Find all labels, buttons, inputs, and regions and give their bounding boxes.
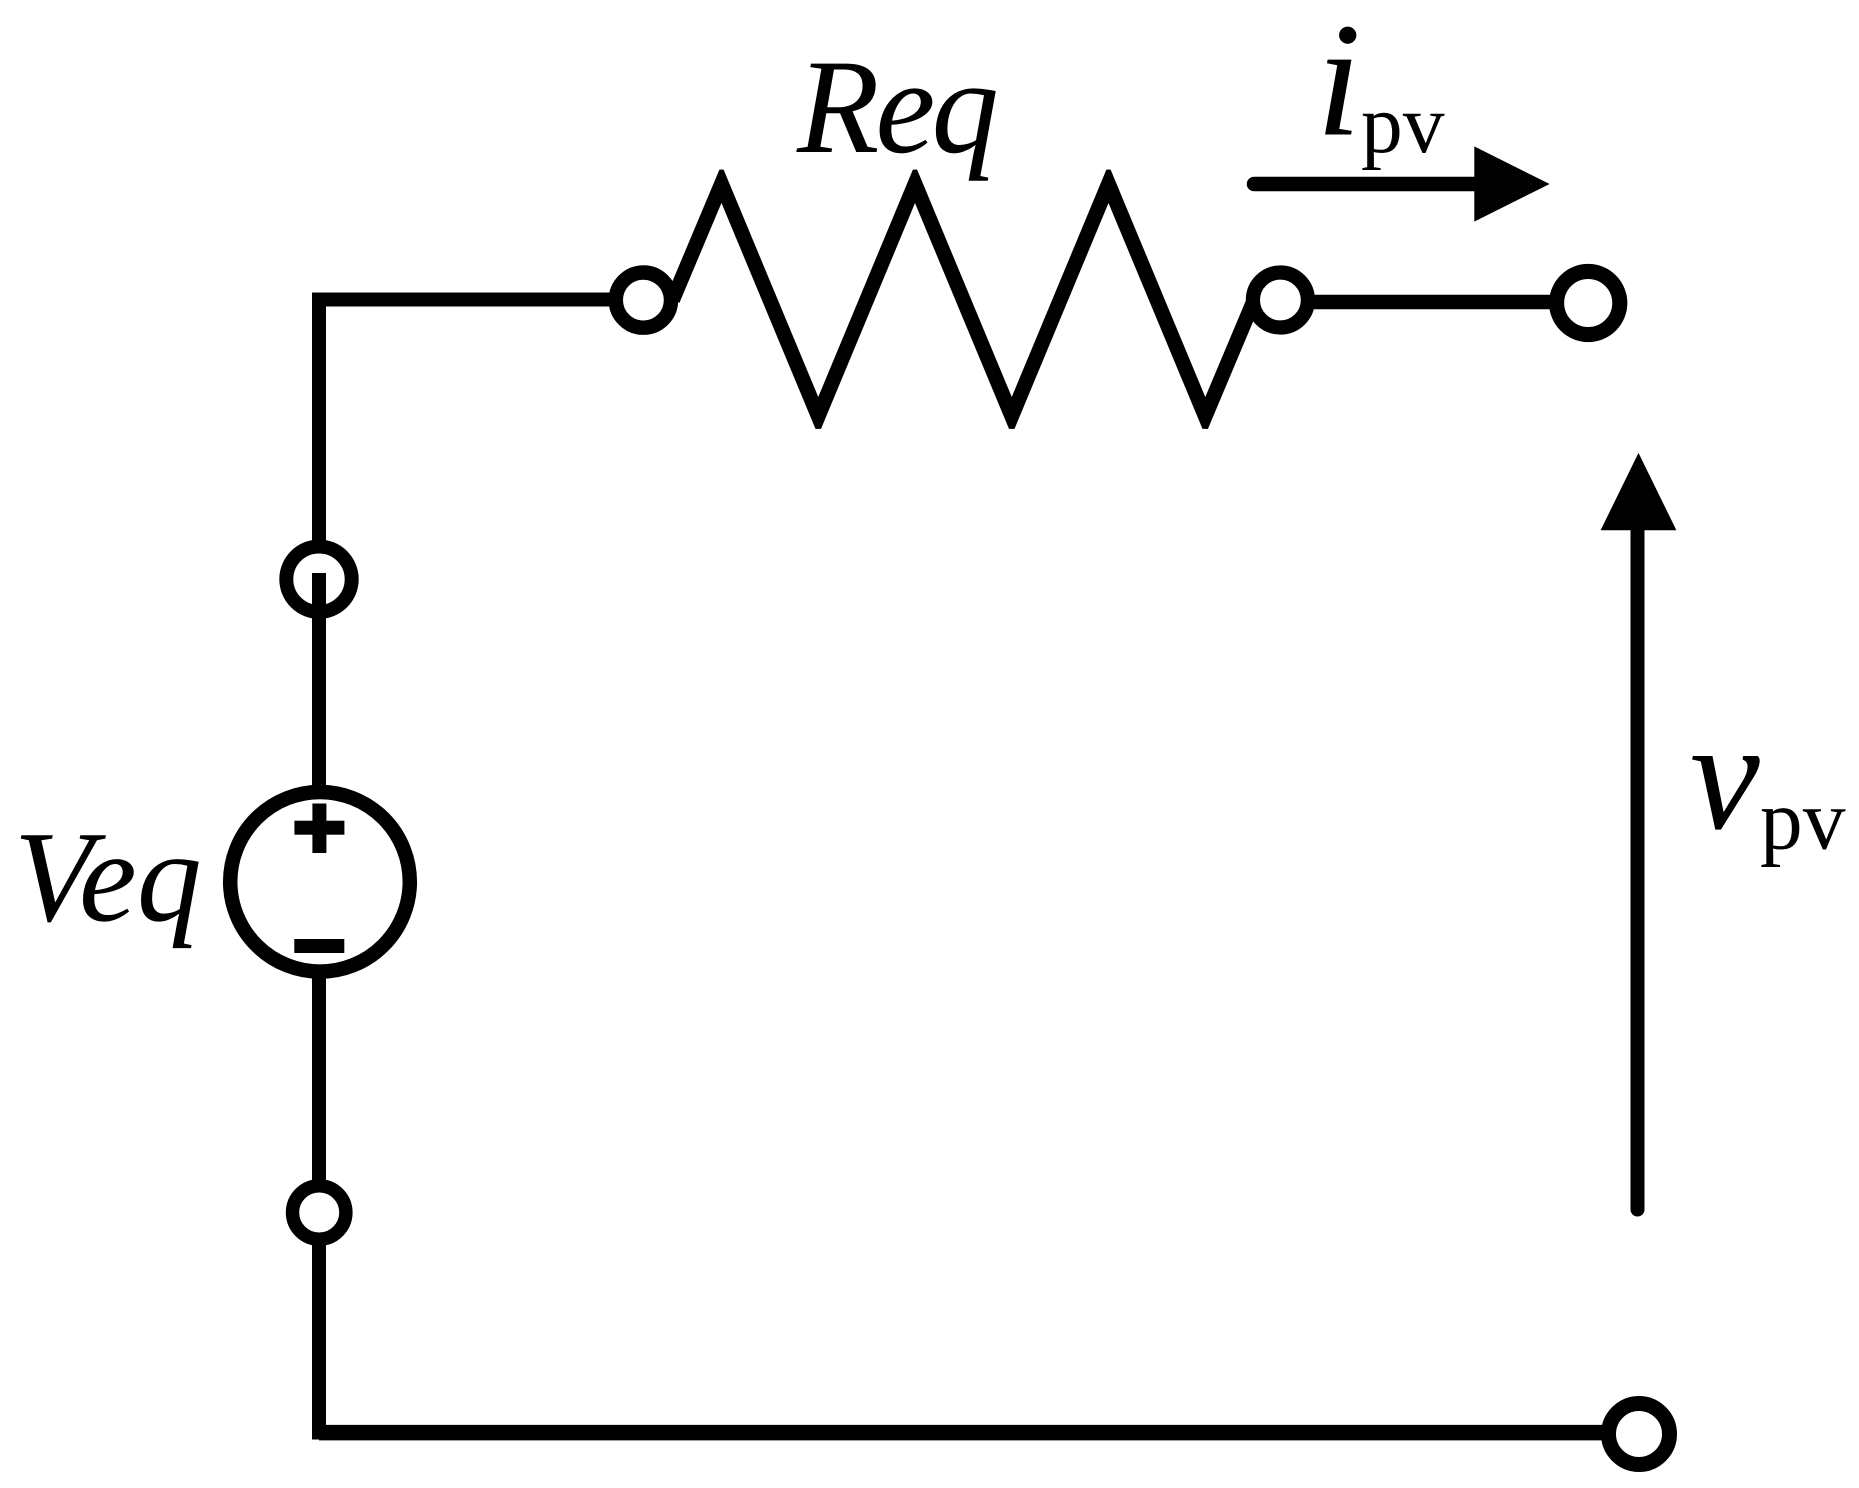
svg-text:i: i [1316, 0, 1361, 171]
svg-text:Req: Req [796, 33, 996, 182]
svg-text:Veq: Veq [14, 805, 202, 949]
svg-text:pv: pv [1361, 79, 1445, 171]
svg-text:v: v [1690, 688, 1760, 862]
svg-text:pv: pv [1760, 774, 1846, 868]
